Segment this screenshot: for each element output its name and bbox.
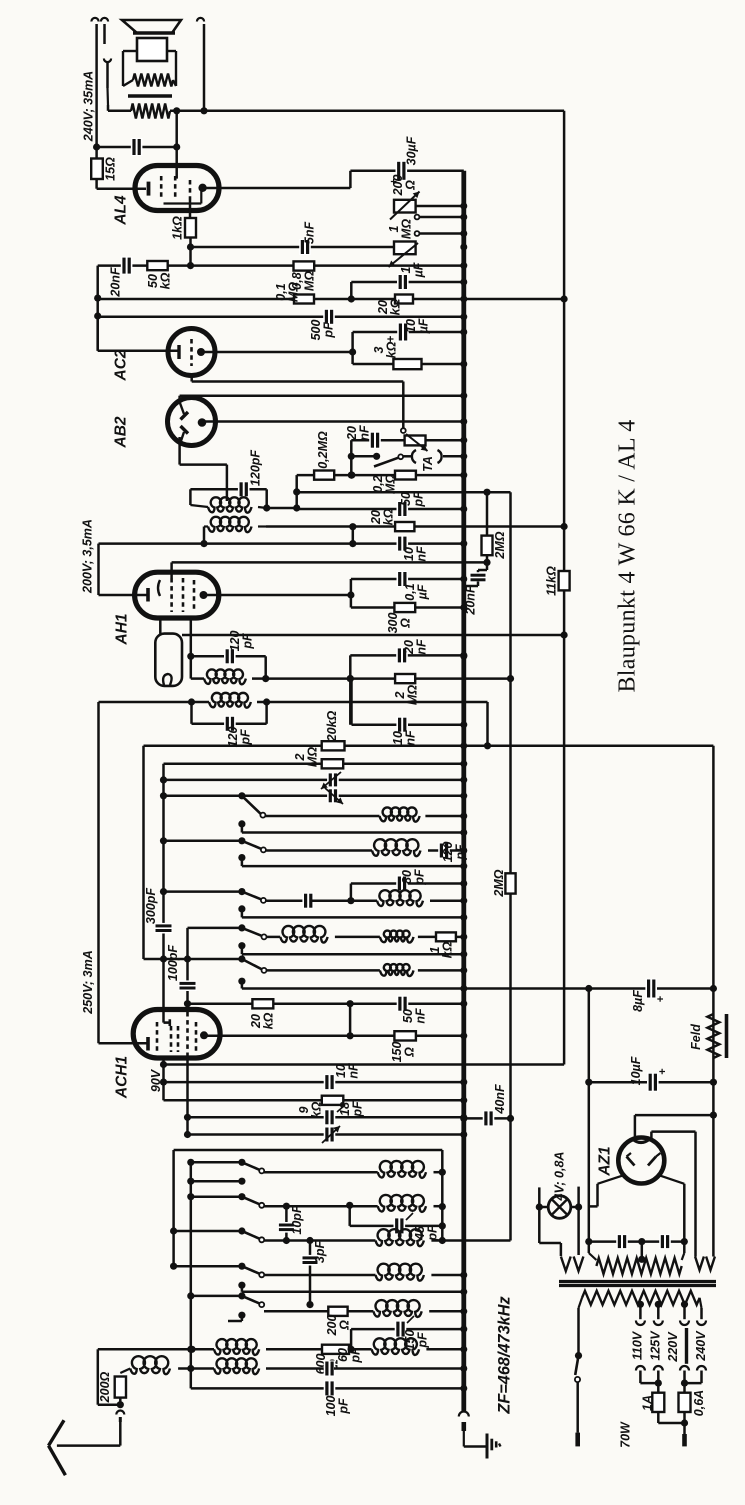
svg-text:10µF: 10µF [629, 1056, 643, 1085]
svg-text:8µF: 8µF [631, 990, 645, 1012]
svg-text:pF: pF [425, 1225, 439, 1242]
svg-text:kΩ: kΩ [384, 341, 398, 358]
svg-text:pF: pF [336, 1398, 350, 1415]
svg-text:pF: pF [411, 491, 425, 508]
svg-text:Feld: Feld [689, 1024, 703, 1050]
svg-text:200V; 3,5mA: 200V; 3,5mA [81, 519, 95, 594]
svg-text:3pF: 3pF [313, 1241, 327, 1264]
svg-text:+: + [655, 996, 667, 1002]
svg-text:pF: pF [321, 322, 335, 339]
svg-text:nF: nF [414, 639, 428, 655]
svg-text:TA: TA [421, 456, 435, 472]
svg-text:pF: pF [238, 729, 252, 746]
svg-text:kΩ: kΩ [381, 508, 395, 525]
svg-text:Ω: Ω [403, 180, 417, 191]
svg-text:120pF: 120pF [249, 450, 263, 486]
svg-text:MΩ: MΩ [302, 271, 316, 291]
svg-text:10pF: 10pF [290, 1205, 304, 1235]
svg-text:240V: 240V [694, 1330, 708, 1362]
svg-text:15Ω: 15Ω [104, 157, 118, 181]
svg-text:Ω: Ω [337, 1320, 351, 1331]
svg-text:1A: 1A [641, 1395, 655, 1411]
svg-text:pF: pF [350, 1101, 364, 1118]
svg-text:Blaupunkt 4 W 66 K / AL 4: Blaupunkt 4 W 66 K / AL 4 [615, 419, 641, 692]
svg-text:nF: nF [413, 1008, 427, 1024]
svg-text:pF: pF [348, 1347, 362, 1364]
svg-text:AC2: AC2 [113, 349, 130, 381]
svg-text:100pF: 100pF [166, 945, 180, 981]
svg-text:30µF: 30µF [405, 136, 419, 165]
svg-text:MΩ: MΩ [399, 219, 413, 239]
svg-text:kΩ: kΩ [440, 941, 454, 958]
svg-text:220V: 220V [666, 1331, 680, 1363]
svg-text:250V; 3mA: 250V; 3mA [81, 950, 95, 1014]
svg-text:2MΩ: 2MΩ [492, 869, 506, 897]
svg-text:pF: pF [240, 633, 254, 650]
svg-text:pF: pF [412, 869, 426, 886]
svg-text:40nF: 40nF [493, 1084, 507, 1115]
svg-text:MΩ: MΩ [305, 747, 319, 767]
svg-text:70W: 70W [619, 1421, 633, 1448]
svg-text:+: + [657, 1068, 669, 1074]
svg-text:4V; 0,8A: 4V; 0,8A [553, 1152, 567, 1202]
svg-text:11kΩ: 11kΩ [545, 566, 559, 596]
svg-text:MΩ: MΩ [286, 282, 300, 302]
svg-text:nF: nF [403, 730, 417, 746]
svg-text:0,2MΩ: 0,2MΩ [316, 431, 330, 469]
svg-text:AL4: AL4 [113, 195, 130, 226]
svg-text:nF: nF [346, 1063, 360, 1079]
svg-text:200Ω: 200Ω [98, 1371, 112, 1403]
svg-text:µF: µF [411, 262, 425, 278]
svg-text:0,6A: 0,6A [692, 1390, 706, 1416]
svg-text:110V: 110V [631, 1330, 645, 1360]
svg-text:20kΩ: 20kΩ [325, 710, 339, 742]
svg-text:AH1: AH1 [114, 613, 131, 645]
svg-text:kΩ: kΩ [309, 1101, 323, 1118]
svg-text:125V: 125V [649, 1330, 663, 1361]
svg-text:µF: µF [416, 318, 430, 334]
svg-text:ZF=468/473kHz: ZF=468/473kHz [496, 1296, 514, 1415]
svg-text:5nF: 5nF [303, 222, 317, 245]
svg-text:+: + [386, 335, 398, 342]
svg-text:300pF: 300pF [144, 888, 158, 924]
svg-text:kΩ: kΩ [261, 1012, 275, 1029]
svg-text:nF: nF [414, 546, 428, 562]
svg-text:AZ1: AZ1 [597, 1146, 614, 1176]
svg-text:240V; 35mA: 240V; 35mA [82, 71, 96, 142]
svg-text:AB2: AB2 [113, 416, 130, 448]
svg-text:nF: nF [357, 425, 371, 441]
svg-text:Ω: Ω [402, 1047, 416, 1058]
svg-text:2MΩ: 2MΩ [493, 531, 507, 559]
svg-text:kΩ: kΩ [158, 272, 172, 289]
svg-text:Ω: Ω [398, 618, 412, 629]
svg-text:90V: 90V [149, 1068, 163, 1092]
svg-text:20nF: 20nF [109, 267, 123, 298]
svg-text:ACH1: ACH1 [114, 1056, 131, 1099]
svg-text:µF: µF [415, 584, 429, 600]
svg-text:1kΩ: 1kΩ [171, 216, 185, 240]
svg-text:kΩ: kΩ [388, 298, 402, 315]
